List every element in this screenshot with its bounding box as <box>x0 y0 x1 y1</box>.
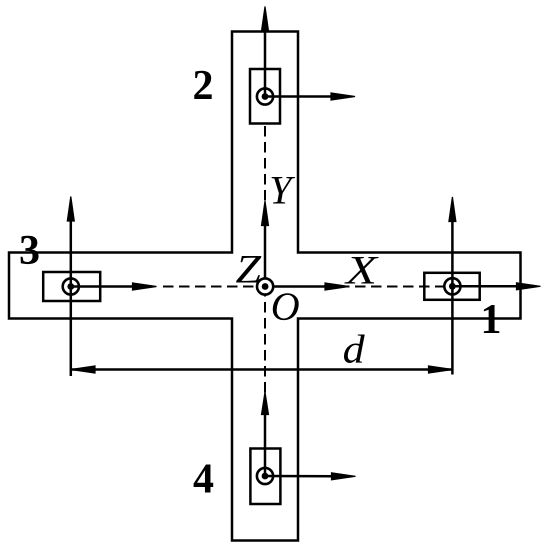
origin circle O <box>257 278 273 294</box>
sensor 2 horizontal arrow <box>265 93 355 100</box>
sensor 3 vertical arrow <box>67 197 74 377</box>
sensor 4 horizontal arrow <box>265 473 356 480</box>
Y axis arrow <box>262 201 269 278</box>
sensor 2 circle <box>257 88 273 104</box>
svg-text:2: 2 <box>193 63 214 109</box>
accelerometer 2 box <box>250 69 280 124</box>
sensor 1 circle <box>444 278 460 294</box>
sensor 4 vertical arrow <box>262 392 269 476</box>
accelerometer 1 box <box>424 273 479 300</box>
sensor 1 horizontal arrow <box>452 283 540 290</box>
origin dot <box>262 283 269 290</box>
svg-text:X: X <box>343 248 379 293</box>
svg-text:O: O <box>271 284 300 329</box>
X axis arrow <box>274 283 349 290</box>
svg-text:1: 1 <box>481 297 502 343</box>
accelerometer 4 box <box>250 449 280 505</box>
sensor 4 dot <box>262 473 269 480</box>
svg-text:d: d <box>343 327 366 372</box>
svg-text:Y: Y <box>269 168 295 213</box>
sensor 3 dot <box>67 283 74 290</box>
sensor 1 vertical arrow <box>449 197 456 375</box>
sensor 3 circle <box>63 278 79 294</box>
accelerometer 3 box <box>43 272 100 301</box>
svg-text:Z: Z <box>236 247 262 292</box>
dashed vertical centerline <box>264 126 266 448</box>
sensor 4 circle <box>257 468 273 484</box>
dimension line d <box>71 366 453 373</box>
dashed horizontal centerline <box>163 286 444 288</box>
sensor 3 horizontal arrow <box>71 283 157 290</box>
sensor 1 dot <box>449 283 456 290</box>
svg-text:4: 4 <box>193 457 214 503</box>
sensor 2 dot <box>262 93 269 100</box>
sensor 2 vertical arrow <box>262 7 269 97</box>
svg-text:3: 3 <box>19 228 40 274</box>
